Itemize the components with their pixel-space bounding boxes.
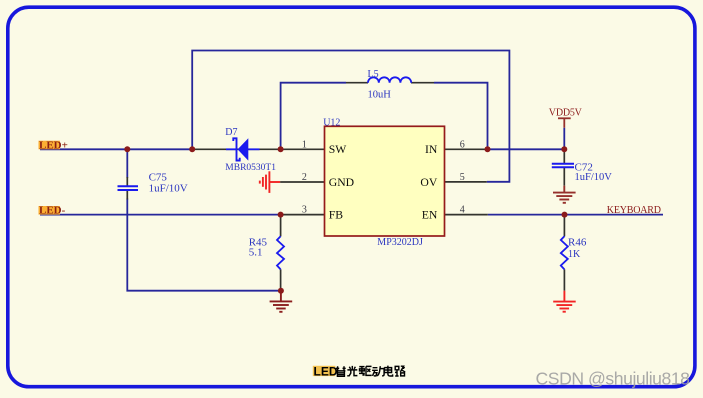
svg-text:MBR0530T1: MBR0530T1	[225, 163, 276, 173]
svg-text:U12: U12	[323, 117, 340, 128]
svg-text:LED-: LED-	[39, 205, 66, 217]
svg-text:1: 1	[302, 140, 307, 151]
svg-text:6: 6	[460, 140, 465, 151]
svg-text:1K: 1K	[568, 249, 581, 260]
svg-text:R46: R46	[568, 236, 587, 248]
svg-text:D7: D7	[225, 127, 237, 138]
svg-text:KEYBOARD: KEYBOARD	[607, 205, 661, 216]
svg-text:EN: EN	[422, 209, 438, 222]
svg-text:2: 2	[302, 172, 307, 183]
svg-text:SW: SW	[329, 143, 348, 156]
svg-text:GND: GND	[329, 176, 354, 189]
svg-text:3: 3	[302, 204, 307, 215]
svg-text:OV: OV	[420, 176, 437, 189]
svg-text:IN: IN	[425, 143, 438, 156]
svg-text:VDD5V: VDD5V	[549, 107, 583, 118]
svg-text:LED+: LED+	[39, 139, 68, 151]
svg-text:4: 4	[460, 204, 465, 215]
svg-text:1uF/10V: 1uF/10V	[575, 172, 613, 183]
svg-text:5.1: 5.1	[249, 246, 263, 258]
svg-text:5: 5	[460, 172, 465, 183]
svg-text:1uF/10V: 1uF/10V	[149, 182, 188, 194]
svg-text:LED: LED	[314, 364, 338, 378]
svg-text:CSDN @shujuliu818: CSDN @shujuliu818	[536, 368, 691, 388]
svg-text:10uH: 10uH	[368, 90, 392, 101]
svg-text:FB: FB	[329, 209, 344, 222]
svg-text:MP3202DJ: MP3202DJ	[377, 237, 423, 248]
svg-text:L5: L5	[368, 69, 379, 80]
